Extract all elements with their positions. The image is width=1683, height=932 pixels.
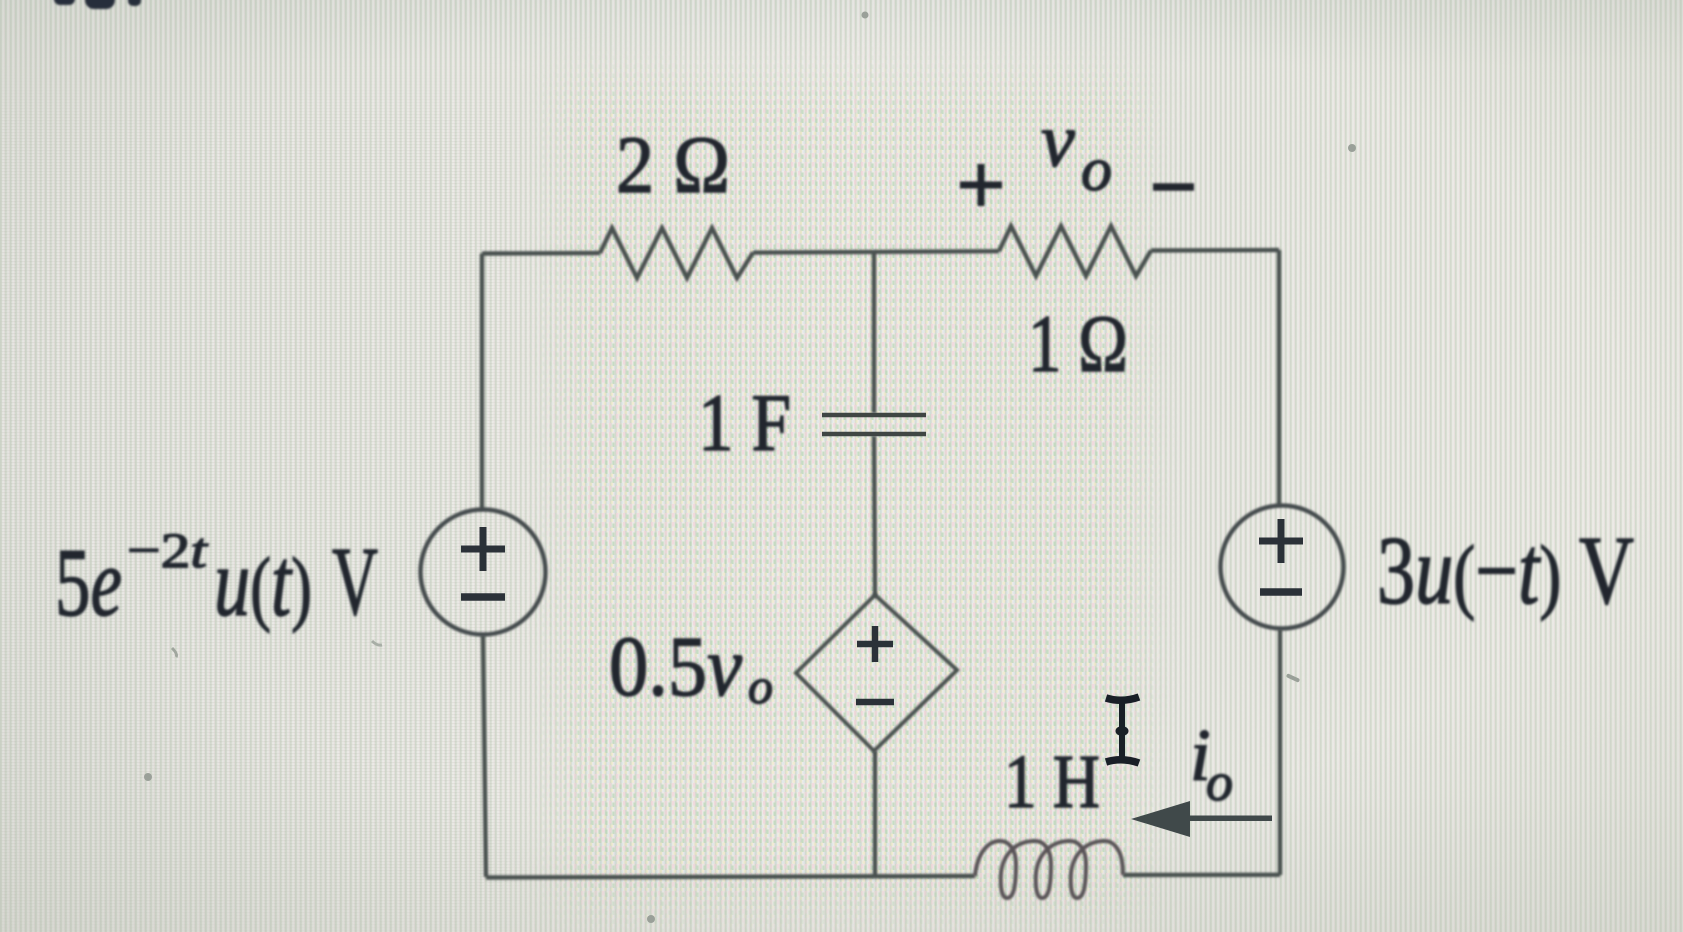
svg-text:2 Ω: 2 Ω (616, 119, 730, 210)
small specks (144, 12, 1356, 924)
wire left vertical lower (483, 635, 486, 877)
wire top-right horizontal (1151, 248, 1279, 253)
capacitor C1 1F plates (822, 415, 926, 434)
wire right vertical lower (1278, 629, 1282, 875)
resistor R1 2 ohm zigzag (600, 228, 753, 278)
svg-text:0.5v: 0.5v (609, 618, 743, 714)
wire top-middle horizontal (753, 251, 999, 252)
wire bottom-right horizontal (1123, 873, 1280, 878)
svg-text:3u(−t) V: 3u(−t) V (1377, 517, 1634, 624)
voltage source V1 5e^-2t u(t) circle left (421, 510, 546, 635)
I-beam cursor (1106, 697, 1139, 763)
svg-text:u(t): u(t) (214, 529, 312, 636)
voltage source V2 3u(-t) circle right (1221, 506, 1344, 629)
diamond minus sign (856, 699, 894, 706)
wire top-left horizontal (482, 251, 600, 256)
wire middle branch lower (873, 751, 877, 876)
wire middle branch between capacitor and diamond (874, 436, 875, 597)
svg-text:1 H: 1 H (1004, 740, 1100, 824)
V1 plus sign (461, 527, 505, 571)
resistor R2 1 ohm zigzag (999, 226, 1151, 276)
svg-text:5e: 5e (55, 529, 122, 636)
wire left vertical upper (480, 254, 484, 511)
dependent source E1 0.5vo diamond (796, 595, 957, 751)
cropped dark text remnant top-left (54, 0, 141, 9)
svg-text:1 Ω: 1 Ω (1028, 298, 1128, 389)
svg-text:1 F: 1 F (698, 377, 791, 468)
svg-text:V: V (332, 528, 378, 635)
svg-text:o: o (1206, 752, 1233, 812)
minus sign right of vo (1153, 183, 1194, 191)
V2 plus sign (1259, 519, 1303, 563)
svg-text:o: o (1081, 136, 1112, 204)
V2 minus sign (1260, 588, 1302, 596)
svg-text:o: o (748, 658, 773, 714)
inductor L1 1H coil (975, 841, 1123, 898)
V1 minus sign (461, 593, 505, 601)
svg-text:−2t: −2t (127, 522, 208, 578)
svg-text:v: v (1041, 99, 1075, 183)
diamond plus sign (857, 626, 893, 662)
wire right vertical upper (1277, 250, 1281, 506)
wire middle branch upper (872, 252, 876, 414)
plus sign left of vo (960, 164, 1002, 206)
wire bottom-left horizontal (486, 876, 975, 878)
current arrow io (1131, 801, 1272, 837)
